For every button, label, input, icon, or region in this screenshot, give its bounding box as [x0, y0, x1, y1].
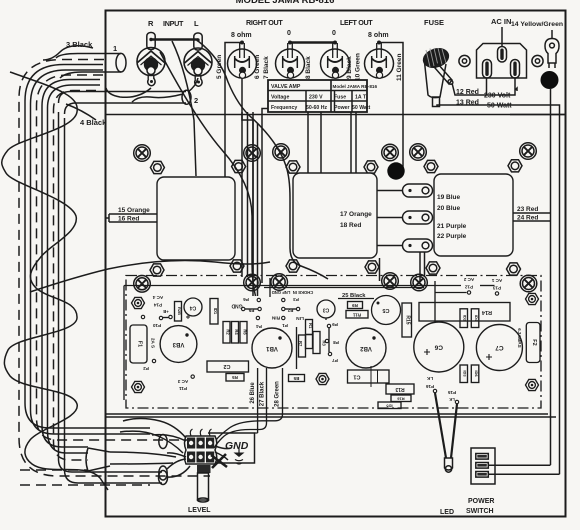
pad P14 — [141, 315, 144, 318]
pad P7 — [328, 352, 331, 355]
svg-text:LED: LED — [440, 509, 454, 516]
wire chassis bottom run 2 — [106, 416, 557, 418]
screw row bottom — [134, 273, 537, 292]
bus between 0 terminals — [290, 41, 335, 43]
hex nut — [364, 161, 378, 173]
screw hole left of inlet — [459, 55, 470, 66]
svg-text:230 V: 230 V — [309, 95, 323, 101]
wire AC IN to earth pin — [501, 27, 503, 46]
svg-text:RIN: RIN — [271, 315, 280, 321]
transformer T2 — [293, 173, 377, 258]
svg-text:P11: P11 — [179, 386, 187, 391]
svg-text:P2: P2 — [143, 366, 149, 371]
svg-text:22 Purple: 22 Purple — [437, 233, 467, 240]
capacitor C6 — [414, 322, 464, 372]
capacitor C1 — [348, 366, 390, 387]
gnd X cross — [211, 454, 227, 468]
hex nut — [507, 263, 521, 275]
wire 14 to lug — [551, 30, 553, 38]
svg-text:C4: C4 — [190, 305, 197, 311]
level potentiometer — [185, 429, 228, 502]
svg-text:R: R — [148, 19, 154, 28]
svg-text:1: 1 — [113, 44, 117, 53]
hex nuts bottom — [150, 260, 521, 276]
diode ID6 — [471, 365, 479, 383]
cable tube C wall 2 — [65, 118, 163, 483]
wire ac drop — [434, 281, 436, 322]
wire bundle S-curve across — [30, 261, 270, 292]
standoff H5 — [526, 379, 539, 390]
svg-text:23 Red: 23 Red — [517, 206, 538, 213]
svg-text:R11: R11 — [353, 312, 362, 317]
svg-text:GND: GND — [225, 440, 249, 452]
cable to pot lower — [159, 459, 190, 480]
wire 8 black down — [308, 112, 321, 173]
resistor R5b — [289, 375, 305, 382]
cable bundle dashed line inner — [54, 91, 97, 461]
binding post 1 — [228, 41, 257, 79]
wire table drop a — [247, 112, 249, 277]
svg-text:R4: R4 — [234, 329, 239, 335]
resistor R13 — [386, 384, 414, 394]
svg-text:ID6: ID6 — [474, 370, 479, 377]
wire jack R tail — [106, 88, 151, 97]
svg-text:ID4: ID4 — [474, 315, 479, 322]
LED wire left — [435, 393, 446, 458]
solder lug 2 — [403, 211, 433, 224]
wire 26 blue — [255, 368, 258, 433]
wire cap2 to jack L — [188, 78, 198, 92]
svg-text:C2: C2 — [223, 363, 230, 369]
hex nut — [424, 160, 438, 172]
bottom dashed stubs — [20, 469, 88, 471]
wire heater run — [124, 286, 461, 401]
resistor R15 — [402, 303, 412, 337]
svg-text:FUSE: FUSE — [424, 18, 444, 27]
diode ID1 — [210, 299, 218, 325]
capacitor C5 — [372, 296, 401, 325]
svg-text:L: L — [194, 19, 199, 28]
wire switch mid to right — [488, 464, 550, 466]
svg-text:18 Red: 18 Red — [340, 222, 361, 229]
pad B+ — [169, 315, 172, 318]
chassis outline — [106, 11, 566, 517]
valve socket VB1 — [252, 328, 292, 368]
svg-text:8 ohm: 8 ohm — [368, 32, 389, 39]
hex nut — [365, 261, 379, 273]
wire T2 to lug2 — [377, 217, 403, 219]
svg-text:R14: R14 — [481, 309, 492, 315]
capacitor C2 — [207, 361, 249, 372]
svg-text:POWER: POWER — [468, 498, 494, 505]
resistor R2B — [175, 302, 183, 322]
wire gnd box — [208, 433, 255, 463]
svg-text:P10: P10 — [152, 323, 161, 328]
svg-text:VB2: VB2 — [360, 345, 372, 351]
chassis screw — [520, 275, 537, 292]
svg-text:P7: P7 — [332, 358, 338, 363]
svg-text:B5: B5 — [293, 376, 299, 381]
wire input to PCB run 2 — [198, 41, 252, 118]
hex nut — [426, 262, 440, 274]
cable bundle outer dashed ring — [19, 60, 210, 477]
wire 3 black leader — [43, 46, 93, 60]
standoff H2 — [132, 381, 145, 392]
pad P3 — [282, 298, 285, 301]
svg-text:10 Green: 10 Green — [355, 53, 362, 81]
svg-text:LIN: LIN — [296, 315, 304, 321]
title partial top — [236, 0, 335, 6]
wire lugs down to pcb — [380, 252, 425, 281]
chassis screw — [410, 144, 427, 161]
binding post 4 — [365, 41, 394, 79]
svg-text:0: 0 — [332, 30, 336, 37]
svg-text:AC IN: AC IN — [491, 17, 511, 26]
wire 230v tick — [515, 88, 517, 91]
svg-text:C6: C6 — [434, 343, 443, 350]
svg-text:1A T: 1A T — [355, 95, 367, 101]
svg-text:P12: P12 — [464, 284, 473, 289]
cable to pot upper — [120, 419, 186, 454]
cable tube B wall 2 — [48, 85, 174, 464]
pad P15 — [455, 400, 458, 403]
svg-text:17 Orange: 17 Orange — [340, 211, 372, 218]
pot bushing — [197, 465, 211, 473]
power switch body — [471, 448, 495, 484]
wire table drop b — [252, 112, 254, 277]
svg-text:0: 0 — [287, 30, 291, 37]
cable 2 end cap — [182, 90, 191, 104]
valve socket VB3 — [160, 326, 197, 363]
IEC pin live — [483, 60, 492, 79]
PCB board dashed outline — [126, 276, 541, 409]
svg-text:P6: P6 — [243, 297, 249, 302]
svg-text:P5: P5 — [248, 308, 254, 313]
wire 13 red — [437, 105, 560, 474]
svg-text:P9: P9 — [332, 322, 338, 327]
chassis screw — [134, 276, 151, 293]
chassis screw — [382, 273, 399, 290]
svg-text:LK: LK — [426, 376, 433, 381]
resistor R7 — [298, 335, 306, 357]
svg-text:ID3: ID3 — [463, 370, 468, 377]
resistor R2 — [223, 322, 231, 344]
svg-text:Frequency: Frequency — [271, 105, 297, 111]
svg-text:INPUT: INPUT — [163, 19, 184, 28]
svg-text:2: 2 — [194, 96, 198, 105]
svg-text:8 ohm: 8 ohm — [231, 32, 252, 39]
svg-text:15 Orange: 15 Orange — [118, 207, 150, 214]
resistor R1 — [306, 320, 314, 335]
svg-text:R15: R15 — [405, 315, 411, 324]
resistor R5 — [226, 374, 244, 382]
svg-text:LNF GND: LNF GND — [272, 290, 291, 295]
svg-text:P3: P3 — [293, 297, 299, 302]
svg-text:R13: R13 — [395, 386, 404, 392]
diode ID2 — [460, 309, 468, 328]
svg-text:AC 4: AC 4 — [152, 295, 163, 300]
svg-text:P1: P1 — [282, 323, 288, 328]
svg-text:LEVEL: LEVEL — [188, 507, 211, 514]
svg-text:6.3AMP.S: 6.3AMP.S — [517, 328, 522, 348]
pad P16 — [433, 389, 436, 392]
wire 24 red — [513, 220, 551, 222]
svg-text:7 Black: 7 Black — [263, 56, 270, 79]
wire 6 green down — [242, 78, 258, 296]
svg-text:P16: P16 — [425, 384, 434, 389]
svg-text:4 Black: 4 Black — [80, 118, 107, 127]
fuse F2 — [526, 323, 540, 363]
ground bus between jacks — [151, 38, 198, 40]
fuse holder body — [425, 62, 447, 98]
binding post 2 — [276, 41, 305, 79]
hex nut — [508, 160, 522, 172]
cable tube A wall 1 — [25, 65, 150, 429]
pot shaft — [198, 473, 209, 500]
resistor R6 — [240, 322, 248, 344]
wire switch low to right — [488, 473, 559, 475]
pot upper terminal row — [187, 438, 195, 449]
hex nut — [230, 260, 244, 272]
pad P13 — [495, 292, 498, 295]
ratings table — [268, 80, 377, 112]
resistor R9 — [348, 302, 363, 309]
wire 27 black — [214, 368, 267, 448]
diode ID5 — [378, 402, 401, 409]
svg-text:26 Blue: 26 Blue — [250, 382, 256, 404]
wire input long curve to pcb — [252, 118, 328, 279]
pot lower terminal row — [187, 452, 195, 463]
pad P5 pair — [242, 307, 245, 310]
wire 23-24 bus down right — [550, 88, 552, 465]
svg-text:50 Watt: 50 Watt — [487, 103, 512, 110]
svg-text:R16: R16 — [397, 397, 405, 402]
diode ID4 — [471, 309, 479, 328]
svg-text:11 Green: 11 Green — [396, 54, 403, 81]
svg-text:VB1: VB1 — [266, 345, 278, 351]
pot body outline — [185, 436, 217, 464]
svg-text:9 Black: 9 Black — [346, 56, 353, 79]
svg-text:R2B: R2B — [177, 307, 182, 315]
pad P2 — [152, 359, 155, 362]
wire 15 orange — [109, 213, 157, 215]
svg-text:2A S: 2A S — [151, 338, 156, 348]
spiral lacing wave on bundle — [2, 72, 108, 490]
pot terminal pins — [190, 429, 211, 436]
cable tube C wall 1 — [59, 112, 163, 472]
svg-text:C7: C7 — [495, 344, 504, 351]
svg-text:230 Volt: 230 Volt — [484, 93, 511, 100]
svg-text:MODEL JAMA RB-816: MODEL JAMA RB-816 — [236, 0, 335, 6]
svg-text:20 Blue: 20 Blue — [437, 205, 461, 212]
standoff H4 — [526, 293, 539, 304]
RCA jack L — [184, 33, 212, 86]
wire T2 to lug3 — [377, 245, 403, 247]
wire 4 black leader — [66, 104, 96, 120]
svg-text:R7: R7 — [298, 341, 303, 347]
hex nut — [286, 260, 300, 272]
svg-text:ID1: ID1 — [213, 308, 218, 315]
svg-text:6 Green: 6 Green — [254, 55, 261, 79]
fuse holder cap — [420, 45, 452, 71]
diode ID3 — [460, 365, 468, 383]
svg-text:F2: F2 — [531, 339, 537, 345]
wire input to PCB run 1 — [172, 41, 196, 176]
svg-text:P2: P2 — [287, 308, 293, 313]
svg-text:C5: C5 — [382, 307, 389, 313]
cable cone at chassis — [86, 448, 110, 471]
chassis screw — [134, 145, 151, 162]
wire earth to chassis — [510, 114, 566, 116]
cable end cap tube C — [159, 471, 168, 485]
IEC pin earth — [498, 47, 507, 63]
svg-text:SWITCH: SWITCH — [466, 508, 494, 515]
svg-text:Model JAMA RB-816: Model JAMA RB-816 — [333, 84, 378, 89]
chassis screw — [520, 143, 537, 160]
chassis screw — [244, 145, 261, 162]
RCA jack R — [137, 33, 165, 86]
hex nut — [286, 161, 300, 173]
chassis screw — [271, 274, 288, 291]
fuse F1 — [130, 325, 156, 363]
LED wire right — [451, 404, 457, 458]
svg-text:C3: C3 — [323, 307, 330, 313]
resistor R14 — [419, 303, 510, 322]
bottom dashed stub 2 — [20, 484, 150, 486]
svg-text:C1: C1 — [353, 374, 360, 380]
svg-text:R1: R1 — [308, 323, 313, 329]
screw hole right of inlet — [532, 55, 543, 66]
wire 23 red — [513, 212, 551, 214]
cable 1 tube — [56, 54, 121, 79]
svg-text:Power: Power — [334, 105, 350, 111]
wire pot leader left — [215, 446, 231, 460]
svg-text:P14: P14 — [153, 302, 162, 307]
wire 12 red — [452, 78, 515, 95]
resistor R16 — [391, 395, 411, 402]
pad P11 — [191, 375, 194, 378]
binding post 3 — [321, 41, 350, 79]
svg-text:RIGHT OUT: RIGHT OUT — [246, 18, 283, 27]
standoff H1 — [132, 297, 145, 308]
wire input diag to RIN — [160, 52, 256, 296]
IEC pin neutral — [511, 60, 520, 79]
svg-text:50-60 Hz: 50-60 Hz — [306, 105, 327, 111]
capacitor C4 — [184, 298, 202, 319]
svg-text:27 Black: 27 Black — [260, 381, 266, 406]
capacitor C3 — [317, 300, 335, 318]
svg-text:LEFT OUT: LEFT OUT — [340, 18, 373, 27]
svg-text:R5: R5 — [232, 375, 238, 380]
svg-text:19 Blue: 19 Blue — [437, 194, 461, 201]
resistor R11 — [346, 311, 368, 319]
pad P6 — [257, 298, 260, 301]
svg-text:R9: R9 — [352, 303, 358, 308]
wire 16 red — [109, 221, 157, 223]
earth lug — [545, 39, 559, 69]
chassis screw — [382, 144, 399, 161]
fuse holder side terminal — [435, 64, 454, 85]
svg-text:VALVE AMP: VALVE AMP — [271, 84, 301, 90]
cable tube B wall 1 — [42, 80, 176, 458]
svg-text:Voltage: Voltage — [271, 95, 289, 101]
svg-text:5 Green: 5 Green — [216, 55, 223, 79]
svg-text:R6: R6 — [243, 329, 248, 335]
cable 2 tube — [59, 92, 187, 115]
resistor R4 — [232, 322, 240, 344]
wire long horizontal y114 — [106, 114, 566, 116]
standoff H3 — [316, 373, 329, 384]
chassis screw — [273, 144, 290, 161]
fuse holder bottom pin — [433, 97, 440, 107]
valve socket VB2 — [346, 328, 386, 368]
cable bundle dashed line mid — [37, 75, 189, 440]
wire P7-P9 link — [326, 318, 329, 352]
svg-text:R2: R2 — [226, 329, 231, 335]
screw row top — [134, 143, 537, 162]
svg-text:14 Yellow/Green: 14 Yellow/Green — [511, 21, 563, 28]
svg-text:VB3: VB3 — [172, 341, 184, 347]
wire chassis bottom run 1 — [106, 413, 549, 415]
hex nut — [150, 161, 164, 173]
svg-text:P8: P8 — [333, 340, 339, 345]
chassis screw — [244, 274, 261, 291]
pad P9 — [327, 324, 330, 327]
svg-text:ID2: ID2 — [463, 315, 468, 322]
IEC inlet outline — [477, 44, 527, 79]
pad P2b pair — [282, 307, 285, 310]
svg-text:Fuse: Fuse — [334, 95, 346, 101]
capacitor C7 — [476, 325, 522, 371]
pad P12 — [467, 291, 470, 294]
LED body — [445, 458, 453, 472]
transformer T1 — [157, 177, 235, 260]
hex nut — [232, 160, 246, 172]
svg-text:GND: GND — [231, 303, 243, 309]
resistor R3 — [313, 332, 327, 354]
resistor R8 — [306, 335, 313, 349]
solder lug 1 — [403, 184, 433, 197]
wire vb1 right — [296, 327, 298, 369]
svg-text:F1: F1 — [137, 341, 143, 347]
wire post1 drop — [241, 112, 243, 277]
svg-text:50 Watt: 50 Watt — [352, 105, 371, 111]
wire 7 black down — [262, 80, 290, 283]
svg-text:AC 1: AC 1 — [491, 278, 502, 283]
cable 1 end cap — [116, 53, 126, 72]
wire 28 green — [216, 368, 283, 440]
solder lug 3 — [403, 239, 433, 252]
black grommet dot — [541, 71, 559, 89]
svg-text:ID5: ID5 — [386, 404, 393, 409]
wire 11 green down — [379, 43, 403, 174]
svg-text:21 Purple: 21 Purple — [437, 223, 467, 230]
svg-text:+B: +B — [163, 309, 168, 314]
transformer T3 — [434, 174, 513, 256]
cable tube A wall 2 — [31, 70, 151, 434]
pad P8 — [325, 339, 328, 342]
svg-text:8 Black: 8 Black — [305, 56, 312, 79]
wire 5 green down — [225, 43, 242, 178]
grommet dot T2 — [387, 162, 404, 179]
wire stub P3 — [269, 278, 271, 297]
svg-text:P4: P4 — [256, 324, 262, 329]
svg-text:CHOKE IN: CHOKE IN — [293, 290, 313, 295]
wire pot left hook — [152, 435, 186, 457]
hex nuts top — [150, 160, 522, 174]
svg-text:AC 3: AC 3 — [177, 379, 188, 384]
wire 10 green down — [355, 112, 357, 173]
